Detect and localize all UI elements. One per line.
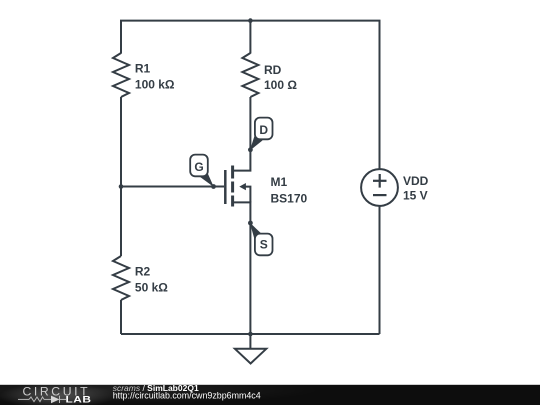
resistor R1 zigzag <box>113 53 129 97</box>
M1 channel segment middle <box>231 182 234 193</box>
wire right rail upper (top to VDD) <box>379 21 381 170</box>
pin label G: dot on gate wire <box>211 184 216 189</box>
M1 body arrow head <box>239 183 246 190</box>
wire left rail upper (top to R1) <box>120 21 122 54</box>
voltage source VDD: minus sign <box>373 194 387 196</box>
svg-text:R2: R2 <box>135 265 151 279</box>
wire left rail lower (R2 to bottom) <box>120 300 122 334</box>
M1 drain lead <box>234 150 251 171</box>
M1 body line <box>245 187 251 203</box>
pin label S: rounded box <box>255 234 273 256</box>
M1 channel segment top <box>231 166 234 179</box>
wire right rail lower (VDD to bottom) <box>379 206 381 334</box>
pin label D: dot on drain wire <box>248 147 253 152</box>
M1 gate bar <box>224 170 227 204</box>
footer logo schematic line with resistor <box>18 396 66 403</box>
wire bottom rail <box>121 333 380 335</box>
wire gate (left rail to gate) <box>121 186 224 188</box>
pin label G: callout pointer <box>199 171 214 187</box>
svg-text:50 kΩ: 50 kΩ <box>135 281 168 295</box>
svg-text:D: D <box>259 123 268 137</box>
wire left rail middle (R1 to R2) <box>120 97 122 256</box>
wire source (M1 source terminal to bottom rail) <box>249 223 251 334</box>
pin label S: callout pointer <box>250 223 263 240</box>
svg-text:R1: R1 <box>135 62 151 76</box>
M1 source lead <box>234 202 251 223</box>
svg-text:http://circuitlab.com/cwn9zbp6: http://circuitlab.com/cwn9zbp6mm4c4 <box>113 391 261 401</box>
pin label D: callout pointer <box>250 136 263 151</box>
svg-text:15 V: 15 V <box>403 189 428 203</box>
voltage source VDD: circle <box>361 169 398 206</box>
footer bar glow wide <box>0 376 320 404</box>
node: bottom junction dot (ground node) <box>248 332 253 337</box>
svg-text:M1: M1 <box>271 175 288 189</box>
footer logo diode <box>51 396 60 404</box>
svg-text:RD: RD <box>264 63 282 77</box>
wire top rail <box>121 21 380 22</box>
svg-text:BS170: BS170 <box>271 191 308 205</box>
M1 channel segment bottom <box>231 196 234 207</box>
ground symbol <box>235 334 266 364</box>
pin label G: rounded box <box>190 155 208 177</box>
footer bar glow logo <box>0 383 115 405</box>
svg-text:100 Ω: 100 Ω <box>264 78 297 92</box>
ground stub wire <box>249 334 251 349</box>
svg-text:G: G <box>194 160 203 174</box>
pin label S: dot on source wire <box>248 221 253 226</box>
footer bar <box>0 385 540 405</box>
ground triangle <box>235 349 266 364</box>
svg-text:LAB: LAB <box>66 395 92 405</box>
svg-text:100 kΩ: 100 kΩ <box>135 78 175 92</box>
resistor RD zigzag <box>242 53 258 97</box>
wire drain (RD to M1 drain terminal) <box>249 97 251 150</box>
voltage source VDD: plus sign <box>373 174 387 188</box>
svg-text:S: S <box>260 238 268 252</box>
node: gate junction dot on left rail <box>119 184 124 189</box>
transistor M1 (NMOS BS170) <box>225 150 250 223</box>
wire middle rail upper (top to RD) <box>249 21 251 54</box>
pin label D: rounded box <box>255 118 273 140</box>
resistor R2 zigzag <box>113 256 129 300</box>
node: top junction dot <box>248 18 253 23</box>
svg-text:VDD: VDD <box>403 174 429 188</box>
